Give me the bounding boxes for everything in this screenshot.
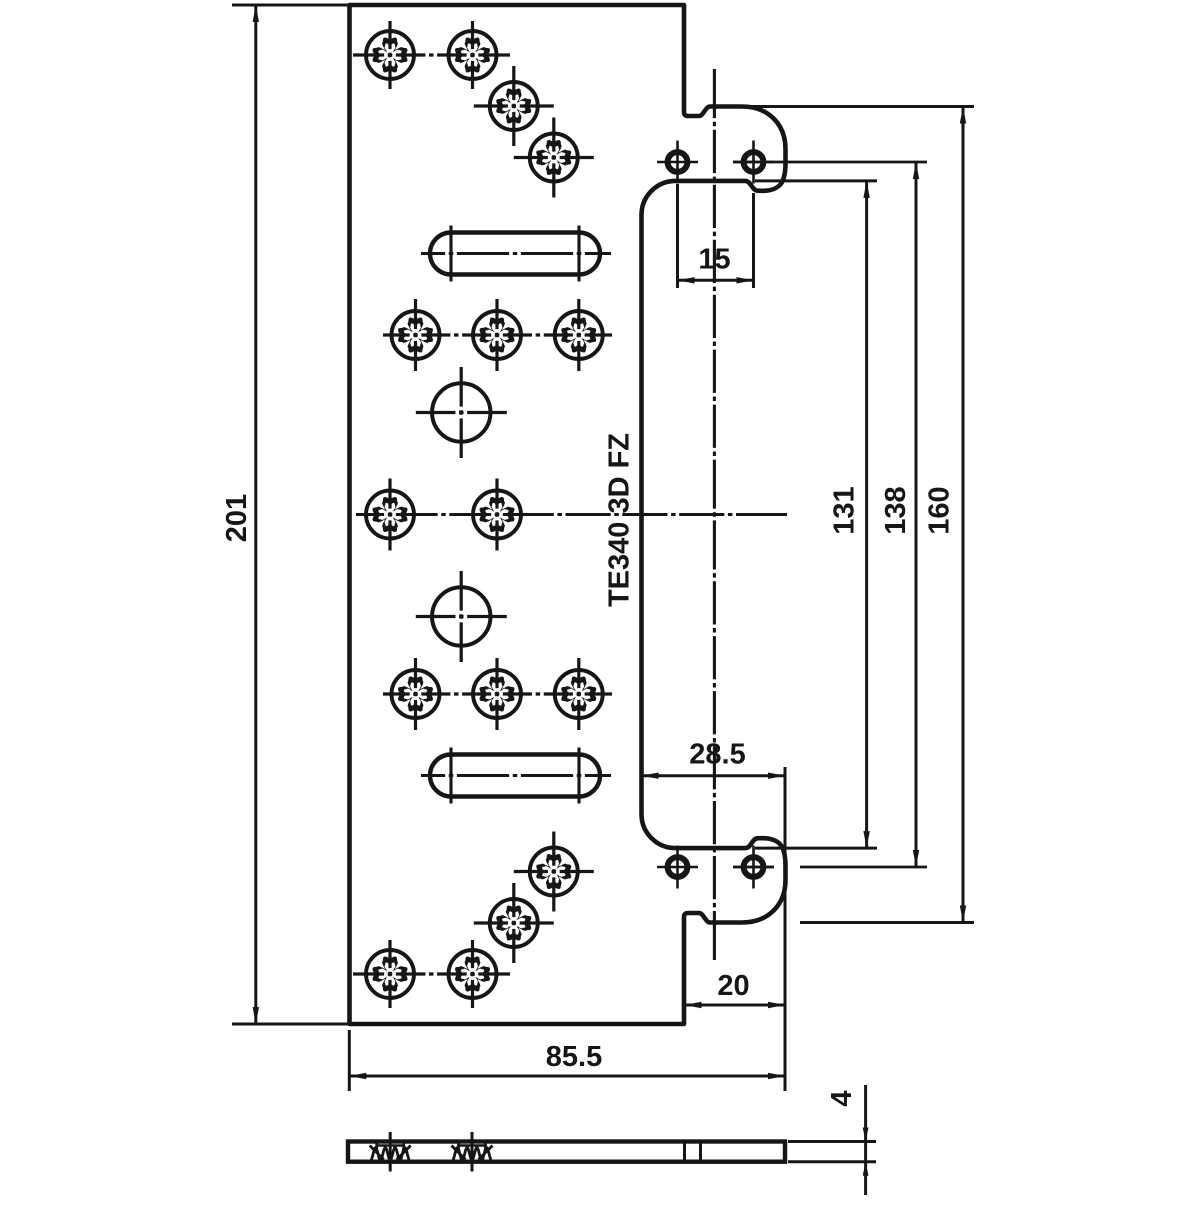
svg-text:138: 138 (880, 486, 912, 534)
svg-text:201: 201 (221, 494, 253, 542)
svg-text:20: 20 (717, 970, 749, 1002)
svg-text:85.5: 85.5 (546, 1041, 602, 1073)
svg-text:TE340 3D FZ: TE340 3D FZ (604, 433, 636, 607)
svg-text:4: 4 (826, 1090, 858, 1106)
svg-text:28.5: 28.5 (689, 739, 745, 771)
svg-text:15: 15 (698, 244, 730, 276)
svg-text:160: 160 (924, 486, 956, 534)
svg-text:131: 131 (829, 486, 861, 534)
